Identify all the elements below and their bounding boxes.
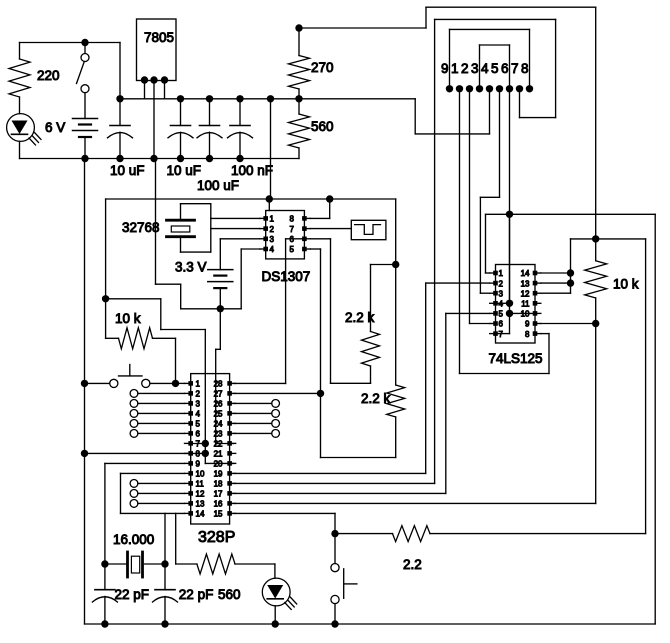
svg-text:20: 20	[214, 460, 223, 469]
svg-text:4: 4	[481, 61, 489, 76]
svg-text:10 uF: 10 uF	[110, 163, 145, 178]
svg-text:10 k: 10 k	[613, 277, 639, 292]
svg-text:2: 2	[499, 279, 504, 288]
svg-text:11: 11	[196, 480, 205, 489]
svg-text:17: 17	[214, 490, 223, 499]
svg-text:5: 5	[499, 310, 504, 319]
svg-text:7: 7	[290, 225, 295, 234]
svg-text:13: 13	[521, 279, 530, 288]
svg-text:100 uF: 100 uF	[197, 178, 239, 193]
svg-text:74LS125: 74LS125	[489, 351, 543, 366]
svg-text:2.2 k: 2.2 k	[361, 391, 391, 406]
svg-text:7: 7	[499, 330, 504, 339]
svg-text:24: 24	[214, 420, 223, 429]
svg-text:100 nF: 100 nF	[231, 163, 273, 178]
svg-text:22 pF: 22 pF	[179, 587, 214, 602]
svg-text:14: 14	[521, 269, 530, 278]
svg-text:2.2: 2.2	[403, 557, 422, 572]
svg-text:220: 220	[37, 68, 60, 83]
svg-text:10: 10	[196, 470, 205, 479]
svg-text:27: 27	[214, 390, 223, 399]
svg-text:25: 25	[214, 410, 223, 419]
svg-text:12: 12	[521, 289, 530, 298]
svg-text:8: 8	[196, 450, 201, 459]
svg-text:23: 23	[214, 430, 223, 439]
svg-text:5: 5	[290, 245, 295, 254]
svg-text:4: 4	[499, 300, 504, 309]
svg-text:6: 6	[196, 430, 201, 439]
svg-text:2: 2	[270, 225, 275, 234]
svg-text:19: 19	[214, 470, 223, 479]
svg-text:9: 9	[196, 460, 201, 469]
svg-text:16: 16	[214, 500, 223, 509]
svg-text:9: 9	[441, 61, 449, 76]
svg-text:2: 2	[461, 61, 469, 76]
svg-text:4: 4	[196, 410, 201, 419]
svg-text:8: 8	[525, 330, 530, 339]
svg-text:7: 7	[196, 440, 201, 449]
svg-text:26: 26	[214, 400, 223, 409]
svg-text:5: 5	[491, 61, 499, 76]
svg-text:10 uF: 10 uF	[167, 163, 202, 178]
svg-text:28: 28	[214, 380, 223, 389]
svg-text:13: 13	[196, 500, 205, 509]
svg-text:21: 21	[214, 450, 223, 459]
svg-text:560: 560	[218, 587, 241, 602]
svg-text:18: 18	[214, 480, 223, 489]
svg-text:6: 6	[501, 61, 509, 76]
svg-text:7: 7	[511, 61, 519, 76]
svg-text:4: 4	[270, 245, 275, 254]
svg-text:10 k: 10 k	[115, 311, 141, 326]
svg-text:270: 270	[311, 60, 334, 75]
svg-text:8: 8	[290, 215, 295, 224]
svg-text:3.3 V: 3.3 V	[175, 260, 207, 275]
svg-text:6 V: 6 V	[45, 120, 65, 135]
svg-text:3: 3	[196, 400, 201, 409]
svg-text:6: 6	[499, 320, 504, 329]
svg-text:22 pF: 22 pF	[115, 587, 150, 602]
svg-text:560: 560	[311, 119, 334, 134]
svg-text:8: 8	[521, 61, 529, 76]
svg-text:15: 15	[214, 510, 223, 519]
svg-text:16.000: 16.000	[113, 532, 154, 547]
svg-text:3: 3	[471, 61, 479, 76]
svg-text:3: 3	[270, 235, 275, 244]
svg-text:12: 12	[196, 490, 205, 499]
svg-text:22: 22	[214, 440, 223, 449]
svg-text:10: 10	[521, 310, 530, 319]
svg-text:1: 1	[270, 215, 275, 224]
svg-text:5: 5	[196, 420, 201, 429]
svg-text:2.2 k: 2.2 k	[345, 310, 375, 325]
svg-text:6: 6	[290, 235, 295, 244]
svg-text:1: 1	[451, 61, 459, 76]
svg-text:2: 2	[196, 390, 201, 399]
svg-text:11: 11	[521, 300, 530, 309]
svg-text:3: 3	[499, 289, 504, 298]
svg-text:1: 1	[196, 380, 201, 389]
svg-text:1: 1	[499, 269, 504, 278]
svg-text:14: 14	[196, 510, 205, 519]
svg-text:32768: 32768	[122, 220, 160, 235]
svg-text:9: 9	[525, 320, 530, 329]
svg-text:7805: 7805	[144, 30, 174, 45]
svg-text:328P: 328P	[198, 529, 235, 546]
